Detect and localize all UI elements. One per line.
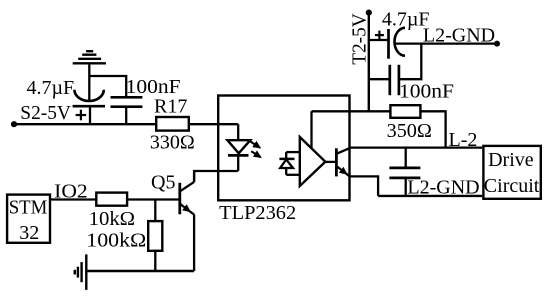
wire ground rail (bottom) — [86, 270, 194, 272]
wire amplifier apex to output transistor base — [325, 161, 336, 163]
node T2-5V (dot) — [366, 10, 372, 16]
svg-text:S2-5V: S2-5V — [20, 102, 71, 124]
wire Vcc pin (TLP pin) to 350ohm — [312, 110, 391, 112]
wire emitter to L2-GND line — [350, 176, 379, 196]
resistor 350ohm — [390, 105, 420, 118]
wire L2-GND line (to Drive Circuit) — [378, 195, 482, 197]
capacitor C3 4.7uF (polarized, T2 side) — [369, 28, 405, 59]
resistor 10k — [96, 193, 127, 206]
svg-text:Q5: Q5 — [151, 172, 175, 194]
wire R17 to LED anode — [189, 123, 238, 125]
node L2-GND (dot) — [494, 41, 500, 47]
wire S2-5V rail to R17 — [14, 123, 156, 125]
block STM32 — [7, 195, 50, 243]
svg-text:STM: STM — [9, 197, 48, 219]
amplifier (photodetector triangle) — [300, 137, 326, 186]
photodiode (inside TLP2362) — [279, 152, 299, 175]
svg-text:100kΩ: 100kΩ — [86, 230, 146, 252]
wire ground stem to C1 arc — [88, 63, 90, 100]
wire 10k to Q5 base — [127, 198, 180, 200]
block Drive Circuit — [483, 146, 540, 199]
wire 100k top lead — [154, 200, 156, 222]
svg-text:R17: R17 — [154, 96, 187, 118]
svg-text:L2-GND: L2-GND — [407, 176, 479, 198]
wire Q5 emitter down — [193, 215, 195, 272]
transistor (TLP output, NPN) — [336, 148, 349, 176]
svg-text:Circuit: Circuit — [484, 175, 540, 197]
wire L-2 line (collector to Drive Circuit) — [350, 146, 483, 148]
svg-text:TLP2362: TLP2362 — [219, 202, 296, 224]
capacitor C4 100nF (T2 side) — [369, 44, 422, 96]
wire 350ohm to L-2 line — [420, 111, 445, 147]
svg-text:330Ω: 330Ω — [150, 131, 195, 153]
svg-text:32: 32 — [19, 222, 39, 244]
svg-text:350Ω: 350Ω — [387, 120, 432, 142]
wire 100k bottom lead — [154, 251, 156, 271]
svg-text:10kΩ: 10kΩ — [89, 208, 136, 230]
resistor R17 — [156, 117, 189, 131]
capacitor C2 100nF (S2 side) — [111, 97, 143, 124]
svg-text:L-2: L-2 — [449, 129, 478, 151]
wire LED cathode to Q5 collector — [194, 171, 238, 182]
node S2-5V (dot) — [11, 121, 17, 127]
svg-text:Drive: Drive — [488, 149, 534, 171]
wire branch to 100nF C2 — [89, 76, 126, 97]
svg-text:T2-5V: T2-5V — [349, 13, 371, 65]
wire Q5 collector up — [193, 171, 195, 182]
LED (inside TLP2362) — [227, 124, 250, 171]
wire T2-5V rail — [368, 13, 370, 112]
wire Vcc stub to amplifier — [310, 111, 312, 149]
wire C3 to L2-GND node — [396, 42, 498, 44]
ground (earth, bottom-left, rotated) — [75, 254, 87, 290]
svg-text:L2-GND: L2-GND — [423, 25, 495, 47]
transistor Q5 (NPN) — [180, 182, 194, 215]
wire STM32 to 10k resistor — [50, 198, 96, 200]
svg-text:100nF: 100nF — [399, 81, 454, 103]
capacitor C5 (output filter) — [389, 148, 420, 196]
resistor 100k — [148, 221, 162, 251]
ground (earth, top-left) — [73, 51, 106, 63]
capacitor C1 4.7uF (polarized, S2 side) — [73, 90, 105, 124]
svg-text:4.7µF: 4.7µF — [27, 77, 75, 99]
optocoupler U1 TLP2362 box — [218, 96, 349, 201]
light arrows — [250, 141, 261, 157]
